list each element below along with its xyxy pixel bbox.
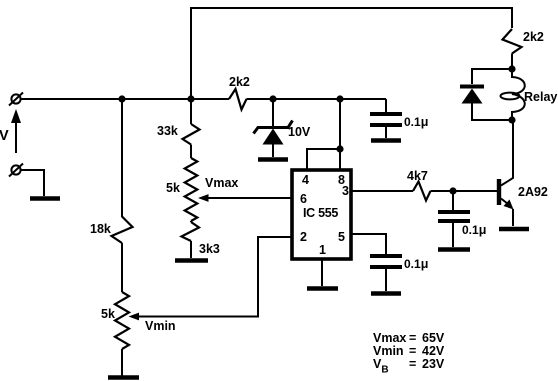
ground (input) xyxy=(30,196,60,201)
node rail/pin8 xyxy=(336,95,343,102)
wire top rail xyxy=(191,8,512,99)
wire pin6 to Vmax wiper xyxy=(206,197,292,199)
svg-text:Vmin: Vmin xyxy=(373,344,404,358)
transistor Q1 collector xyxy=(501,121,513,186)
svg-text:42V: 42V xyxy=(422,344,445,358)
diode D2 cathode bar xyxy=(460,85,484,89)
potentiometer 5k Vmax xyxy=(185,158,198,221)
svg-text:4k7: 4k7 xyxy=(407,169,428,183)
svg-text:3k3: 3k3 xyxy=(199,242,220,256)
wiper arrow Vmin xyxy=(129,313,140,321)
wire pin8 to rail xyxy=(339,99,341,170)
wire 33k to 5k pot xyxy=(190,145,192,159)
wire 2k2 to relay node xyxy=(511,54,513,70)
wire C3 to ground xyxy=(385,267,387,291)
wire 3k3 to ground xyxy=(190,241,192,258)
svg-text:33k: 33k xyxy=(157,124,178,138)
ground (zener) xyxy=(258,157,288,162)
arrow V (input voltage) xyxy=(11,109,21,153)
svg-text:3: 3 xyxy=(342,184,349,198)
node pin4 bracket xyxy=(336,145,343,152)
resistor 18k xyxy=(112,217,133,244)
relay coil xyxy=(512,69,525,120)
ground (C1) xyxy=(371,138,401,143)
svg-text:=: = xyxy=(409,357,416,371)
ground (C3) xyxy=(371,291,401,296)
wire 4k7 to base xyxy=(431,190,498,192)
wire C2 top lead xyxy=(452,191,454,210)
svg-text:Vmin: Vmin xyxy=(145,319,176,333)
svg-text:5: 5 xyxy=(338,230,345,244)
wire 33k top lead xyxy=(190,99,192,124)
wire zener to ground xyxy=(272,144,274,157)
diode D2 anode triangle xyxy=(462,89,483,104)
svg-text:4: 4 xyxy=(302,173,309,187)
wire diode branch top xyxy=(472,69,512,84)
svg-text:18k: 18k xyxy=(90,222,111,236)
wire C2 to ground xyxy=(452,221,454,247)
resistor 2k2 (rail) xyxy=(229,89,247,110)
wire pin5 to capacitor C3 xyxy=(351,234,386,254)
svg-text:2A92: 2A92 xyxy=(518,185,548,199)
svg-text:65V: 65V xyxy=(422,331,445,345)
svg-text:10V: 10V xyxy=(288,125,311,139)
terminal input - xyxy=(9,164,23,177)
svg-text:IC 555: IC 555 xyxy=(303,206,338,220)
ground (3k3) xyxy=(175,258,208,263)
resistor 33k xyxy=(183,124,200,145)
terminal input + xyxy=(9,93,23,106)
svg-text:=: = xyxy=(409,331,416,345)
capacitor C3 0.1u plates xyxy=(370,254,402,258)
wire emitter to ground xyxy=(512,209,514,226)
emitter arrow xyxy=(504,200,514,210)
ground (C2) xyxy=(438,247,470,252)
svg-text:V: V xyxy=(0,128,9,144)
svg-text:5k: 5k xyxy=(101,307,115,321)
svg-text:2: 2 xyxy=(300,230,307,244)
node base/C2 xyxy=(449,187,456,194)
wiper arrow Vmax xyxy=(198,194,209,202)
svg-text:2k2: 2k2 xyxy=(523,30,544,44)
node rail/33k/top rail xyxy=(187,95,194,102)
transistor Q1 2A92 base bar xyxy=(497,179,501,205)
wire rail after 2k2 xyxy=(247,98,387,100)
resistor 4k7 xyxy=(413,182,431,201)
resistor 2k2 (top right) xyxy=(503,29,522,54)
node relay bottom xyxy=(508,116,515,123)
wire C1 to ground xyxy=(385,125,387,138)
wire 5k pot to ground xyxy=(121,349,123,376)
wire 18k top lead xyxy=(121,99,123,217)
node rail/18k xyxy=(118,95,125,102)
capacitor C2 0.1u plates xyxy=(438,210,470,214)
svg-text:Vmax: Vmax xyxy=(373,331,406,345)
svg-text:23V: 23V xyxy=(422,357,445,371)
wire pin2 to Vmin wiper xyxy=(137,237,292,317)
svg-text:5k: 5k xyxy=(166,181,180,195)
svg-text:0.1μ: 0.1μ xyxy=(462,223,486,237)
wire pin1 to ground xyxy=(321,259,323,286)
resistor 3k3 xyxy=(182,222,200,241)
potentiometer 5k Vmin xyxy=(115,292,129,349)
wire terminal to ground xyxy=(21,170,45,196)
node rail/zener xyxy=(269,95,276,102)
transistor Q1 emitter xyxy=(501,199,508,205)
zener diode D1 anode triangle xyxy=(263,129,284,145)
svg-text:1: 1 xyxy=(319,243,326,257)
wire pin3 to 4k7 xyxy=(351,190,413,192)
svg-text:Vmax: Vmax xyxy=(205,176,238,190)
svg-text:6: 6 xyxy=(300,192,307,206)
svg-text:Relay: Relay xyxy=(524,90,557,104)
wire main rail xyxy=(21,98,230,100)
op-amp U1 IC 555 box xyxy=(292,170,351,259)
zener diode D1 cathode bar xyxy=(254,121,293,134)
wire diode branch bottom xyxy=(472,103,512,120)
ground (emitter) xyxy=(499,227,529,232)
ground (Vmin pot) xyxy=(108,375,139,380)
node relay top xyxy=(508,65,515,72)
ground (pin1) xyxy=(307,286,338,291)
wire 18k to 5k pot xyxy=(121,243,123,292)
svg-text:0.1μ: 0.1μ xyxy=(404,257,428,271)
wire pin4 bracket xyxy=(307,149,340,170)
relay ellipse xyxy=(501,93,520,100)
capacitor C1 0.1u plates xyxy=(370,112,402,116)
wire zener top lead xyxy=(272,99,274,126)
wire 5k pot to 3k3 xyxy=(190,221,192,222)
svg-text:=: = xyxy=(409,344,416,358)
svg-text:0.1μ: 0.1μ xyxy=(404,115,428,129)
wire rail to capacitor C1 xyxy=(385,99,387,112)
svg-text:2k2: 2k2 xyxy=(229,75,250,89)
